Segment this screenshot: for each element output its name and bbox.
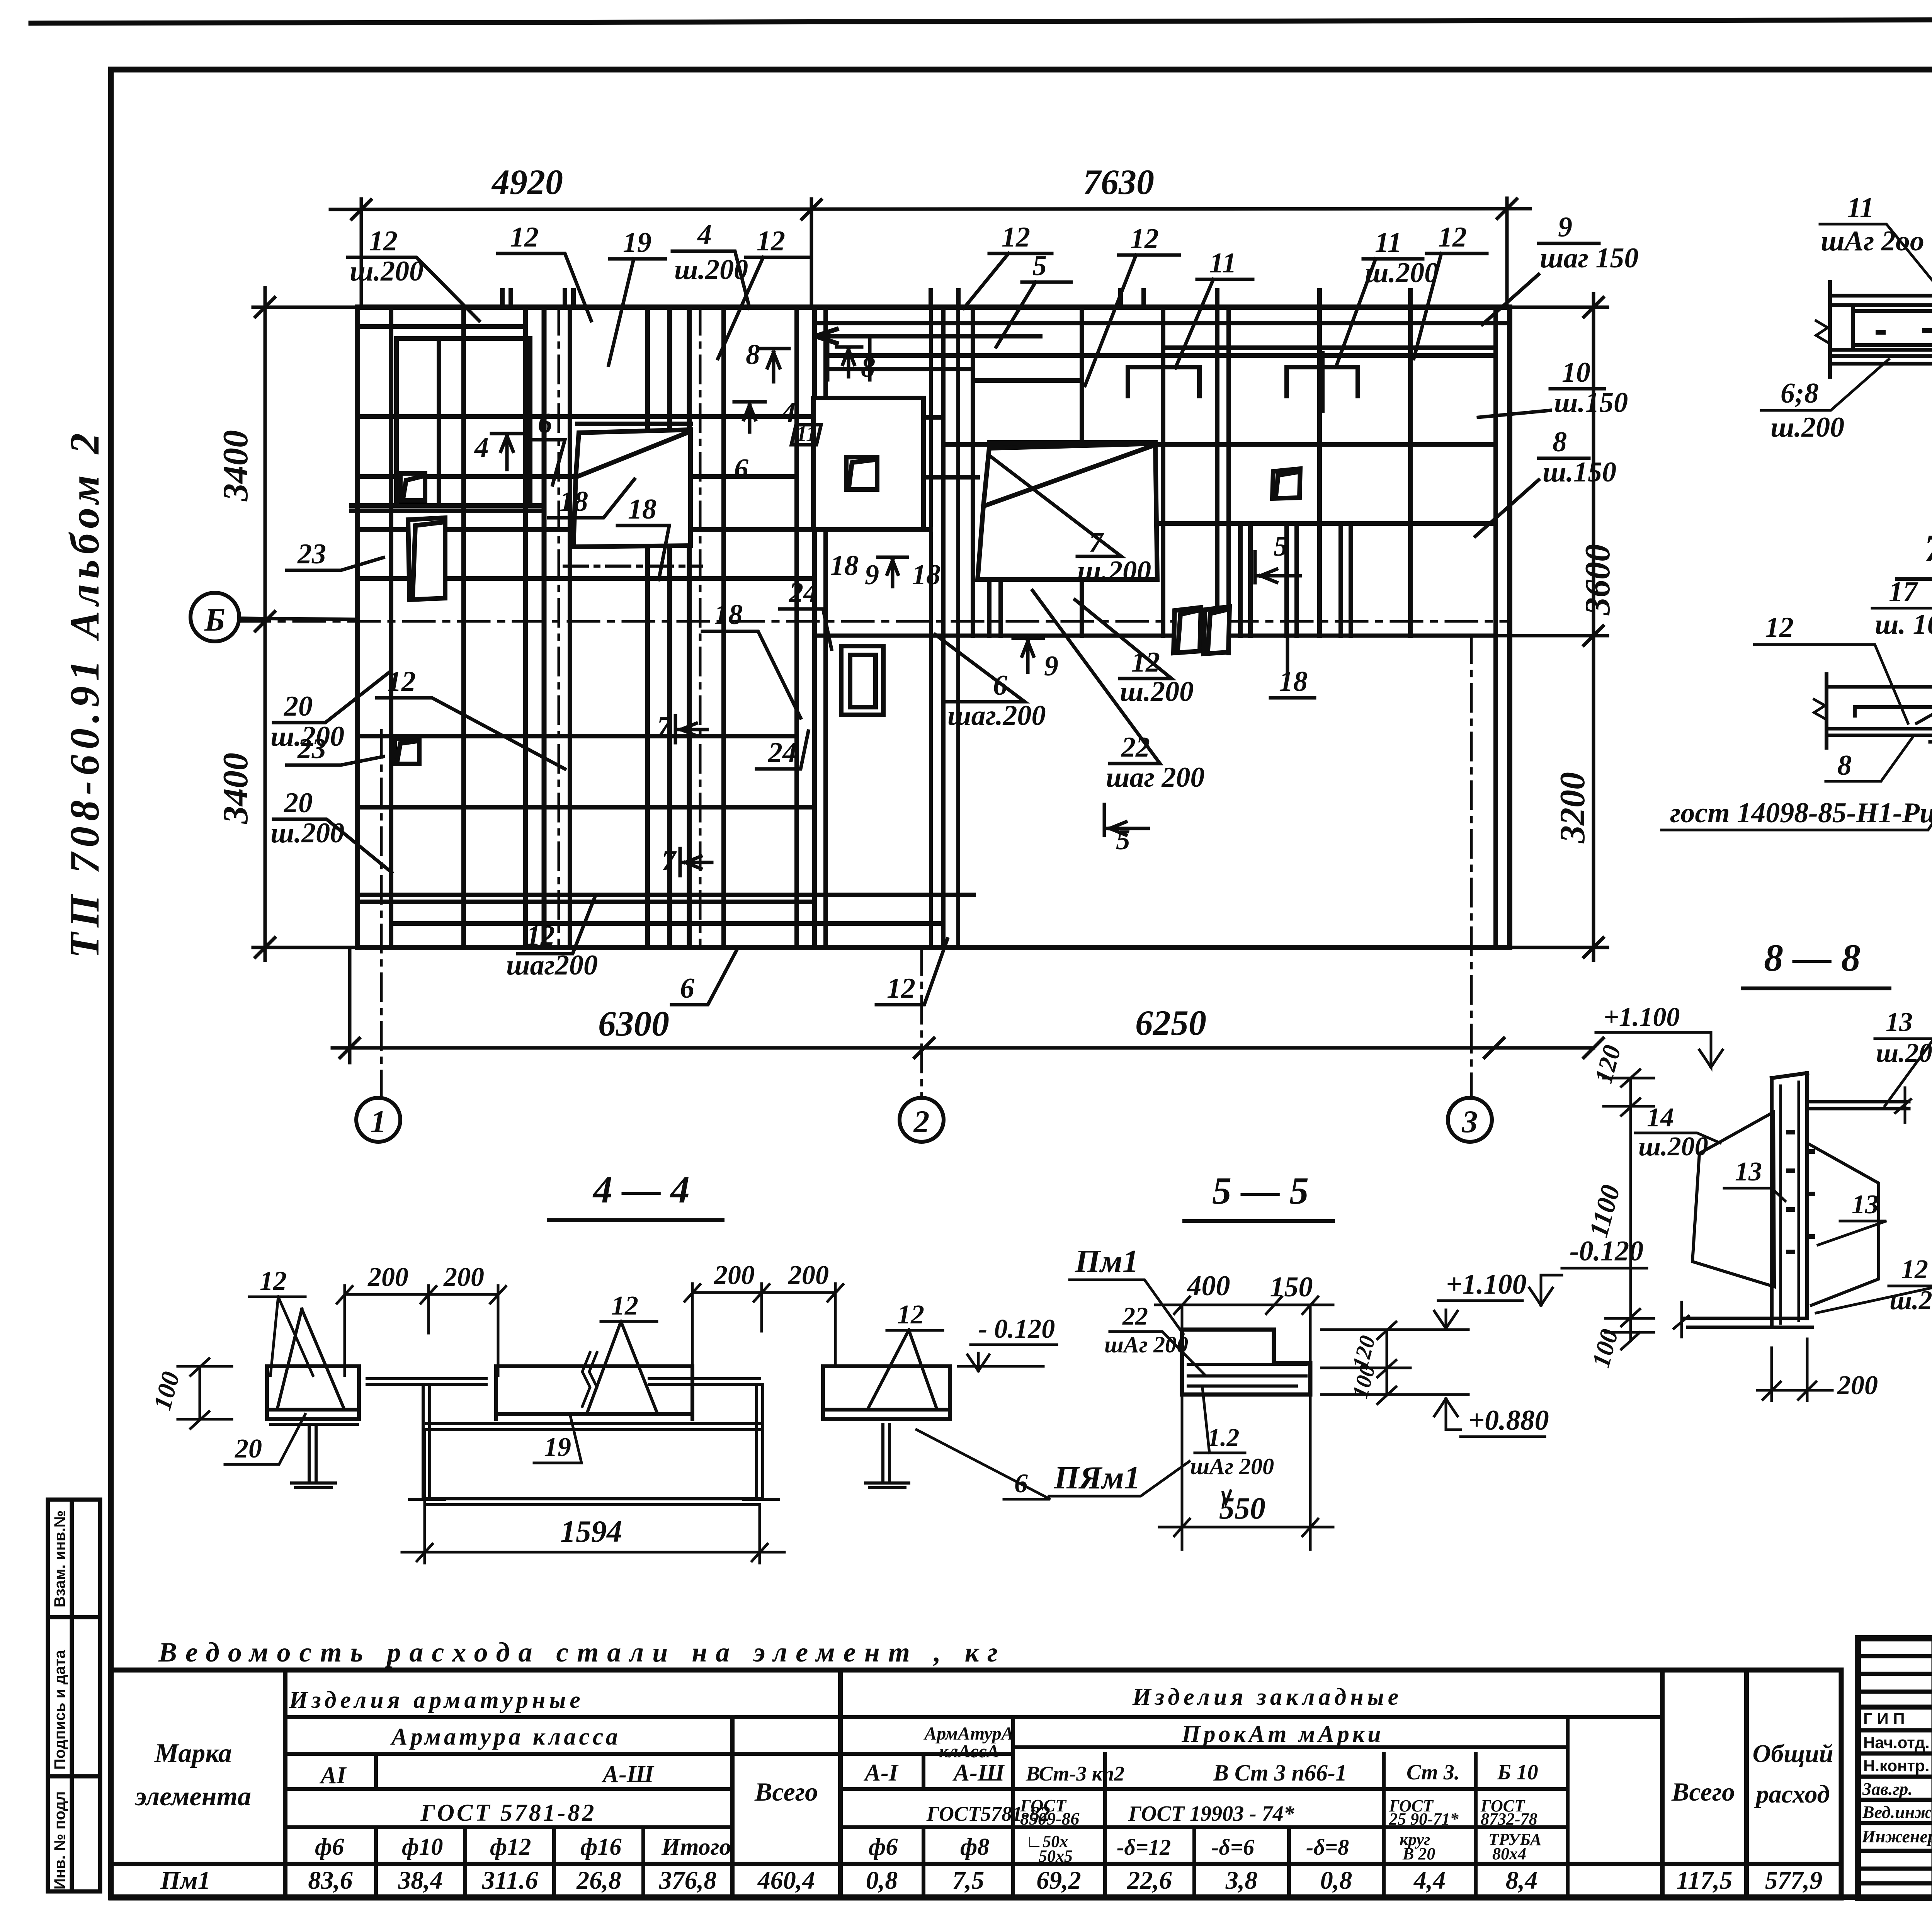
svg-text:19: 19 xyxy=(544,1432,571,1462)
svg-text:ш.200: ш.200 xyxy=(1770,412,1844,443)
right I-beam below xyxy=(865,1419,909,1488)
right panel stirrup row line xyxy=(973,378,1082,383)
extra horizontal left panel upper xyxy=(357,324,526,329)
9 up arrow mark central xyxy=(878,557,907,587)
tilted square opening pair 2 xyxy=(1204,607,1230,654)
left panel heavy band vertical xyxy=(542,307,547,947)
bottom slab lines left of wall xyxy=(1683,1318,1812,1327)
data row values xyxy=(160,1866,1822,1895)
svg-text:+1.100: +1.100 xyxy=(1446,1269,1527,1300)
grid circle B xyxy=(190,593,239,641)
svg-text:83,6: 83,6 xyxy=(308,1866,353,1895)
opening trapezoid B xyxy=(408,518,445,600)
data row line xyxy=(111,1862,1841,1866)
grid circle 1 xyxy=(356,1098,400,1142)
left rebar pentagon xyxy=(1692,1112,1774,1287)
left panel vertical bar xyxy=(389,307,393,947)
svg-text:8732-78: 8732-78 xyxy=(1481,1810,1537,1828)
svg-text:3,8: 3,8 xyxy=(1225,1866,1258,1895)
svg-text:4: 4 xyxy=(781,397,796,429)
svg-text:3600: 3600 xyxy=(1578,544,1617,616)
svg-text:3200: 3200 xyxy=(1553,772,1592,844)
svg-text:ф10: ф10 xyxy=(402,1834,443,1860)
wall top xyxy=(1772,1073,1807,1078)
svg-text:8 — 8: 8 — 8 xyxy=(1764,936,1861,979)
signature labels xyxy=(1863,1709,1930,1775)
svg-text:12: 12 xyxy=(1765,612,1794,643)
svg-text:18: 18 xyxy=(830,550,859,582)
left panel vertical bar xyxy=(645,307,650,947)
lower double opening inner xyxy=(850,655,876,707)
svg-text:26,8: 26,8 xyxy=(576,1866,621,1895)
extension horizontal top xyxy=(253,306,357,309)
right panel horizontal xyxy=(826,353,1496,358)
svg-text:ПЯм1: ПЯм1 xyxy=(1054,1460,1140,1496)
svg-text:Пм1: Пм1 xyxy=(160,1866,211,1895)
section mark 8 up-arrow left xyxy=(758,349,789,382)
right triangle tie xyxy=(867,1330,937,1410)
axis 2 band vertical xyxy=(971,307,975,636)
svg-text:шаг 200: шаг 200 xyxy=(1106,762,1204,793)
top stub verticals crossing plan top xyxy=(500,291,505,307)
svg-text:24: 24 xyxy=(789,577,818,609)
svg-text:Всего: Всего xyxy=(1671,1777,1735,1806)
svg-text:гост 14098-85-Н1-Рш: гост 14098-85-Н1-Рш xyxy=(1670,797,1932,829)
left slab rebar line xyxy=(270,1408,355,1412)
mark near 4/11 xyxy=(734,402,765,432)
svg-text:Взам. инв.№: Взам. инв.№ xyxy=(51,1510,68,1607)
left panel heavy band vertical xyxy=(687,307,692,947)
svg-text:4 — 4: 4 — 4 xyxy=(592,1168,690,1211)
right panel vertical xyxy=(1161,307,1165,636)
steel table frame xyxy=(111,1670,1841,1898)
tick 6250 right xyxy=(1485,1038,1504,1058)
slab soffit plate line1 xyxy=(1830,354,1932,358)
callout underlines and leaders xyxy=(348,257,479,321)
left stamp table xyxy=(48,1500,100,1891)
tick 6300/6250 xyxy=(915,1038,934,1058)
section mark 5 below opening xyxy=(1104,804,1148,835)
svg-text:22: 22 xyxy=(1121,731,1150,763)
svg-text:шаг.200: шаг.200 xyxy=(947,700,1046,731)
svg-text:Н.контр.: Н.контр. xyxy=(1863,1757,1929,1775)
svg-text:7: 7 xyxy=(662,845,677,877)
svg-text:311.6: 311.6 xyxy=(482,1866,538,1895)
svg-text:4: 4 xyxy=(697,219,712,251)
svg-text:ф12: ф12 xyxy=(490,1834,531,1860)
svg-text:9: 9 xyxy=(1044,650,1058,682)
svg-text:13: 13 xyxy=(1886,1007,1913,1037)
svg-text:19: 19 xyxy=(623,227,651,259)
diagonal anchor xyxy=(1917,692,1932,723)
svg-text:20: 20 xyxy=(235,1434,262,1464)
slab top line xyxy=(1827,685,1932,689)
svg-text:12: 12 xyxy=(260,1266,287,1296)
svg-text:Изделия арматурные: Изделия арматурные xyxy=(289,1687,584,1713)
svg-text:3400: 3400 xyxy=(216,430,255,502)
24 leaders xyxy=(780,609,832,649)
extra vertical left panel xyxy=(437,338,441,505)
T beam mid-left xyxy=(367,1379,486,1499)
svg-text:ПрокАт мАрки: ПрокАт мАрки xyxy=(1181,1721,1384,1747)
svg-text:ш.150: ш.150 xyxy=(1554,387,1628,418)
signature rows xyxy=(1858,1705,1932,1710)
svg-text:7: 7 xyxy=(657,711,672,743)
svg-text:Г И П: Г И П xyxy=(1863,1709,1905,1728)
svg-text:Изделия закладные: Изделия закладные xyxy=(1132,1684,1402,1710)
tick 6300 left xyxy=(340,1038,359,1058)
svg-text:3: 3 xyxy=(1462,1104,1478,1139)
svg-text:-δ=6: -δ=6 xyxy=(1211,1835,1254,1860)
axis 1 dash-dot xyxy=(380,730,383,1098)
svg-text:24: 24 xyxy=(768,737,797,769)
svg-text:11: 11 xyxy=(1375,227,1402,259)
svg-text:376,8: 376,8 xyxy=(659,1866,717,1895)
right vertical dim line 3600+3200 xyxy=(1592,294,1595,960)
svg-text:12: 12 xyxy=(1002,221,1030,253)
svg-text:ш.200: ш.200 xyxy=(1638,1132,1708,1162)
title underline xyxy=(1897,577,1932,581)
axis 2 dash-dot below plan xyxy=(920,947,923,1098)
verticals right section xyxy=(922,1754,925,1789)
svg-text:8: 8 xyxy=(1553,426,1567,458)
right panel horizontal xyxy=(943,442,1496,447)
right panel horizontal xyxy=(815,415,943,420)
svg-text:69,2: 69,2 xyxy=(1036,1866,1081,1895)
left vertical dim line 3400+3400 xyxy=(264,288,267,960)
svg-text:12: 12 xyxy=(757,225,785,257)
panel divider heavy vertical xyxy=(794,307,799,947)
left I-beam below xyxy=(267,1419,359,1488)
panel divider heavy vertical xyxy=(812,307,817,947)
extension to right dim mid xyxy=(1496,634,1607,638)
big left opening diagonal xyxy=(576,433,687,477)
right slab segment xyxy=(823,1366,950,1419)
svg-text:200: 200 xyxy=(443,1262,484,1292)
vertical: marka col xyxy=(283,1670,287,1898)
left dims 120 1100 100 xyxy=(1604,1070,1654,1349)
svg-text:12: 12 xyxy=(1901,1255,1928,1284)
inner plate lines xyxy=(1188,1364,1306,1386)
vertical edges extension xyxy=(1182,1306,1310,1549)
right slab rebar line xyxy=(827,1408,947,1412)
svg-text:ш.200: ш.200 xyxy=(1120,676,1194,707)
svg-text:Вед.инж.: Вед.инж. xyxy=(1862,1802,1932,1822)
thin top rows xyxy=(1858,1654,1932,1658)
axis 2 band vertical xyxy=(941,307,946,947)
rebar hook in slab xyxy=(1855,707,1932,716)
svg-text:ГОСТ 19903 - 74*: ГОСТ 19903 - 74* xyxy=(1128,1802,1295,1826)
left panel inner rectangle outline xyxy=(396,338,530,505)
left panel horizontal xyxy=(357,474,797,479)
svg-text:1594: 1594 xyxy=(560,1515,622,1549)
svg-text:9: 9 xyxy=(865,559,879,591)
top slab lines right of wall xyxy=(1807,1102,1909,1109)
extension to right dim bottom xyxy=(1510,946,1607,949)
right panel vertical xyxy=(1317,307,1322,636)
verticals left section xyxy=(374,1754,378,1789)
small flagged square right panel xyxy=(1272,469,1300,498)
svg-text:11: 11 xyxy=(1847,192,1874,224)
svg-text:А-Ш: А-Ш xyxy=(952,1760,1005,1786)
bottom plate under upstand xyxy=(1930,740,1932,744)
svg-text:Итого: Итого xyxy=(661,1834,731,1860)
svg-text:20: 20 xyxy=(284,690,313,722)
left panel horizontal xyxy=(357,734,797,738)
opening square C xyxy=(395,739,419,764)
svg-text:17: 17 xyxy=(1889,576,1918,608)
svg-text:12: 12 xyxy=(887,973,915,1004)
svg-text:-δ=12: -δ=12 xyxy=(1117,1835,1171,1860)
big right opening xyxy=(978,444,1157,580)
svg-text:8509-86: 8509-86 xyxy=(1020,1809,1079,1828)
right panel arrow line xyxy=(815,329,1040,343)
svg-text:6;8: 6;8 xyxy=(1781,378,1819,409)
left panel horizontal xyxy=(357,414,815,419)
svg-text:12: 12 xyxy=(369,225,398,257)
svg-text:Общий: Общий xyxy=(1753,1740,1833,1768)
svg-text:200: 200 xyxy=(714,1260,755,1290)
right panel vertical xyxy=(1226,307,1231,653)
svg-text:ф6: ф6 xyxy=(315,1834,344,1860)
opening square A corner bar xyxy=(403,476,422,498)
svg-text:12: 12 xyxy=(510,221,539,253)
section mark 5 inside opening xyxy=(1255,552,1300,583)
section mark 9 arrow in opening xyxy=(1013,638,1043,672)
opening square A xyxy=(400,473,425,500)
signature table verticals xyxy=(1932,1638,1932,1898)
svg-text:550: 550 xyxy=(1219,1492,1265,1526)
left panel heavy band vertical xyxy=(667,307,672,947)
left panel horizontal xyxy=(357,576,815,581)
svg-text:80х4: 80х4 xyxy=(1492,1844,1526,1863)
right opening top edge double xyxy=(989,440,1155,445)
right panel horizontal xyxy=(357,527,931,532)
plan outline xyxy=(357,307,1510,947)
dim 1594 xyxy=(402,1430,784,1563)
svg-text:22: 22 xyxy=(1122,1302,1148,1330)
svg-text:6300: 6300 xyxy=(598,1004,669,1043)
dim 400 150 xyxy=(1155,1297,1333,1314)
svg-text:Инженер: Инженер xyxy=(1861,1827,1932,1846)
svg-text:Б 10: Б 10 xyxy=(1497,1760,1538,1784)
svg-text:+1.100: +1.100 xyxy=(1604,1002,1680,1032)
left triangle tie xyxy=(277,1309,344,1408)
lower double opening outer xyxy=(841,646,883,715)
svg-text:18: 18 xyxy=(714,599,743,631)
svg-text:4,4: 4,4 xyxy=(1413,1866,1446,1895)
svg-text:7,5: 7,5 xyxy=(952,1866,985,1895)
left panel horizontal xyxy=(357,895,974,902)
centerline dash-dot horizontal right xyxy=(564,565,701,568)
dim 200 bottom xyxy=(1757,1339,1832,1401)
opening square C corner bar xyxy=(397,741,417,761)
svg-text:Ведомость расхода стали на: Ведомость расхода стали на элемент , кг xyxy=(158,1637,1006,1668)
vertical pair left of big opening xyxy=(989,580,1001,636)
svg-text:38,4: 38,4 xyxy=(398,1866,443,1895)
svg-text:А-I: А-I xyxy=(863,1760,899,1786)
section mark 7 lower xyxy=(680,849,712,876)
svg-text:8,4: 8,4 xyxy=(1506,1866,1538,1895)
svg-text:9: 9 xyxy=(1558,211,1572,243)
svg-text:ф6: ф6 xyxy=(869,1834,898,1860)
svg-text:13: 13 xyxy=(1852,1190,1879,1219)
central opening inner corner bar xyxy=(849,460,874,487)
right rebar pentagon xyxy=(1808,1144,1879,1305)
header texts xyxy=(134,1684,1833,1866)
svg-text:11: 11 xyxy=(1209,247,1236,279)
svg-text:Всего: Всего xyxy=(754,1777,818,1806)
tilted square opening pair 1 xyxy=(1173,607,1201,653)
extra horizontal right band xyxy=(1163,345,1496,350)
slab top line xyxy=(1830,294,1932,298)
slab soffit plate line2 xyxy=(1830,362,1932,366)
svg-text:ш.200: ш.200 xyxy=(270,817,344,849)
slab bottom lines xyxy=(1827,729,1932,735)
axis 3 dash-dot xyxy=(1470,636,1473,1098)
rebar dots on wall xyxy=(1788,1132,1813,1252)
left stamp labels xyxy=(51,1510,68,1889)
sheet outer border top xyxy=(31,19,1932,23)
bottom dim line 6300/6250 xyxy=(332,1046,1594,1050)
svg-text:18: 18 xyxy=(912,559,940,591)
tick top xyxy=(255,298,275,317)
axis 3 vertical solid xyxy=(1493,307,1498,947)
left panel horizontal partial xyxy=(391,921,943,926)
svg-text:4920: 4920 xyxy=(491,162,563,202)
svg-text:4: 4 xyxy=(474,432,489,463)
tick bottom right dim xyxy=(1584,938,1603,957)
svg-text:13: 13 xyxy=(1735,1157,1762,1187)
svg-text:Пм1: Пм1 xyxy=(1075,1243,1139,1279)
tick 6250 ext right xyxy=(1584,1038,1603,1058)
section mark 7 upper xyxy=(675,716,707,743)
vertical pair under opening c xyxy=(1341,524,1351,636)
svg-text:Ст 3.: Ст 3. xyxy=(1406,1760,1460,1784)
vertical pair under opening b xyxy=(1287,524,1297,636)
central opening rect xyxy=(813,398,923,529)
section mark 4 up-arrow left xyxy=(492,434,522,469)
svg-text:2: 2 xyxy=(913,1104,930,1139)
profile body xyxy=(1182,1330,1310,1395)
tick at 3900 xyxy=(1497,199,1517,218)
inner rebar cage left xyxy=(1853,309,1932,347)
svg-text:577,9: 577,9 xyxy=(1765,1866,1823,1895)
bottom slab left tick xyxy=(1674,1302,1689,1337)
left panel heavy band vertical xyxy=(523,307,528,947)
svg-text:8: 8 xyxy=(1837,750,1852,781)
svg-text:Арматура класса: Арматура класса xyxy=(390,1724,621,1750)
svg-text:клАссА: клАссА xyxy=(939,1741,999,1762)
extension to right dim top xyxy=(1510,306,1607,309)
svg-text:400: 400 xyxy=(1187,1270,1230,1302)
svg-text:ш.200: ш.200 xyxy=(1077,555,1151,587)
svg-text:ГОСТ 5781-82: ГОСТ 5781-82 xyxy=(420,1800,597,1826)
right panel vertical xyxy=(1080,307,1084,636)
svg-text:1100: 1100 xyxy=(1583,1182,1626,1240)
dim 100 left xyxy=(178,1359,232,1429)
svg-text:20: 20 xyxy=(284,787,313,819)
extra horizontal central band xyxy=(826,367,973,371)
slab bottom line xyxy=(1830,348,1932,352)
svg-text:ш.200: ш.200 xyxy=(270,721,344,752)
svg-text:- 0.120: - 0.120 xyxy=(978,1314,1055,1344)
right panel vertical pair xyxy=(1215,307,1219,653)
right panel horizontal xyxy=(1157,521,1496,526)
svg-text:0,8: 0,8 xyxy=(866,1866,898,1895)
svg-text:ф8: ф8 xyxy=(960,1834,989,1860)
left break xyxy=(1814,699,1825,719)
top slab end tick xyxy=(1895,1088,1911,1122)
svg-text:12: 12 xyxy=(387,666,416,697)
grid circle 2 xyxy=(900,1098,944,1142)
axis B stub from circle xyxy=(239,618,357,619)
wall rebar verticals xyxy=(1781,1082,1799,1323)
extension vertical mid xyxy=(810,199,813,307)
left panel centerline dash-dot xyxy=(699,307,702,947)
svg-text:8: 8 xyxy=(746,339,760,371)
svg-text:150: 150 xyxy=(1270,1271,1313,1303)
tick at 935 xyxy=(352,200,371,219)
svg-text:12: 12 xyxy=(1130,223,1159,255)
central opening inner square xyxy=(846,457,877,490)
right panel top horizontal xyxy=(815,321,1510,325)
svg-text:Б: Б xyxy=(204,602,225,638)
dims 200 200 left pair xyxy=(337,1286,506,1376)
svg-text:50х5: 50х5 xyxy=(1039,1847,1073,1866)
svg-text:5: 5 xyxy=(1274,531,1288,562)
svg-text:100: 100 xyxy=(148,1369,185,1413)
svg-text:6: 6 xyxy=(680,973,694,1004)
left panel vertical bar xyxy=(461,307,466,947)
svg-text:ВСт-3 кп2: ВСт-3 кп2 xyxy=(1026,1762,1124,1785)
left panel extra vertical xyxy=(568,307,572,947)
svg-text:ТП 708-60.91 Альбом 2: ТП 708-60.91 Альбом 2 xyxy=(62,428,108,958)
left break squiggle xyxy=(1816,321,1828,342)
opening trapezoid B corner bar xyxy=(413,522,441,596)
svg-text:6250: 6250 xyxy=(1135,1003,1206,1043)
right panel vertical xyxy=(1408,307,1413,636)
slab second line xyxy=(1830,303,1932,307)
dimension line 4920/7630 xyxy=(330,209,1530,209)
wall double verticals xyxy=(1772,1073,1807,1327)
svg-text:0,8: 0,8 xyxy=(1320,1866,1352,1895)
dims 200 200 right pair xyxy=(685,1284,843,1364)
svg-text:АI: АI xyxy=(319,1762,347,1789)
right panel band bottom xyxy=(815,634,1496,638)
svg-text:460,4: 460,4 xyxy=(757,1866,815,1895)
svg-text:200: 200 xyxy=(1837,1371,1878,1400)
svg-text:ш. 1000: ш. 1000 xyxy=(1875,609,1932,640)
svg-text:расход: расход xyxy=(1754,1780,1830,1808)
axis 2 band vertical xyxy=(929,307,933,947)
6 underline near 1392,1120 xyxy=(530,440,565,485)
tick top right dim xyxy=(1584,298,1603,317)
svg-text:ф16: ф16 xyxy=(580,1834,621,1860)
middle slab segment xyxy=(496,1366,692,1419)
tick bottom xyxy=(255,938,275,957)
svg-text:Нач.отд.: Нач.отд. xyxy=(1863,1733,1930,1752)
svg-text:-δ=8: -δ=8 xyxy=(1306,1835,1349,1860)
left panel centerline dash-dot xyxy=(558,307,560,947)
bracket V mark xyxy=(1223,1491,1231,1504)
svg-text:6: 6 xyxy=(734,453,748,485)
svg-text:18: 18 xyxy=(628,493,656,525)
svg-text:7630: 7630 xyxy=(1083,162,1154,202)
tick mid xyxy=(255,612,275,631)
svg-text:7 — 7: 7 — 7 xyxy=(1924,527,1932,570)
svg-text:Подпись и дата: Подпись и дата xyxy=(51,1650,68,1770)
